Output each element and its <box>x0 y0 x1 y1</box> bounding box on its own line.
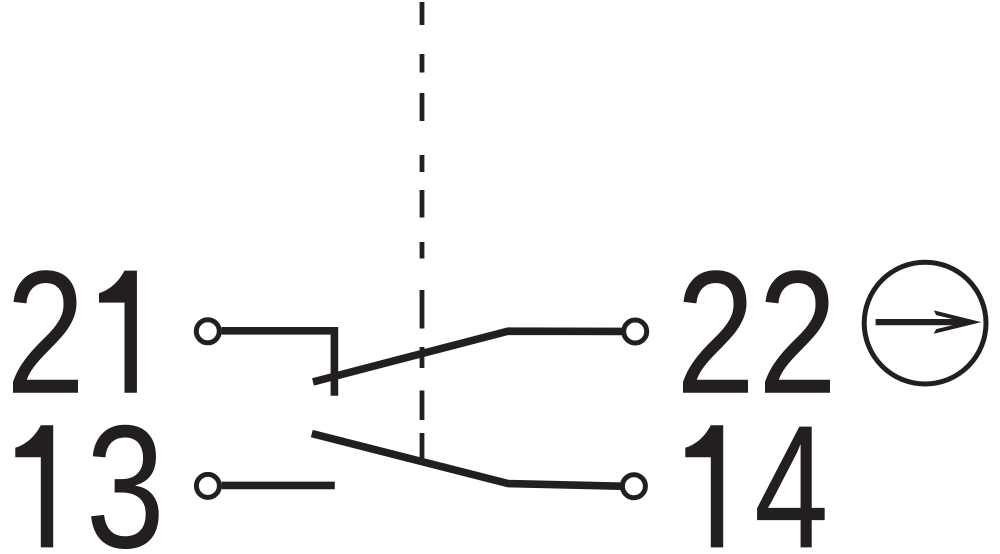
svg-text:2: 2 <box>676 234 755 430</box>
NO contact blade 13-14 <box>312 434 621 487</box>
label 13 <box>15 388 165 554</box>
svg-text:3: 3 <box>86 388 165 554</box>
label 22 <box>676 234 837 430</box>
positive opening operation symbol: circle <box>864 262 986 384</box>
positive opening operation symbol: arrow head <box>934 310 982 333</box>
wire: terminal 21 to fixed contact pivot <box>222 331 335 396</box>
terminal circle 21 <box>196 320 219 343</box>
svg-text:2: 2 <box>6 234 85 430</box>
terminal circle 14 <box>622 475 645 498</box>
NC contact blade 21-22 <box>313 331 622 382</box>
label 14 <box>685 390 828 554</box>
terminal circle 22 <box>624 320 647 343</box>
terminal circle 13 <box>196 474 219 497</box>
actuator axis dashed line <box>420 2 425 461</box>
wire: terminal 13 fixed contact <box>222 482 335 490</box>
svg-text:4: 4 <box>754 390 829 554</box>
positive opening operation symbol: arrow shaft <box>876 319 954 325</box>
label 21 <box>6 234 137 430</box>
